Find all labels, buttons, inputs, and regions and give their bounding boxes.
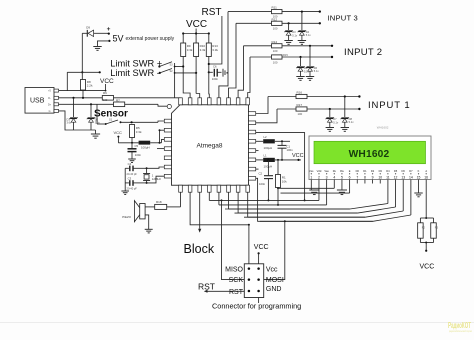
- svg-text:D1: D1: [363, 169, 367, 173]
- svg-text:100µH: 100µH: [264, 165, 273, 169]
- svg-text:13: 13: [401, 176, 405, 180]
- svg-text:16: 16: [424, 176, 428, 180]
- svg-text:Vss: Vss: [309, 169, 314, 173]
- svg-text:100n: 100n: [135, 153, 142, 157]
- svg-text:R12: R12: [272, 17, 278, 21]
- svg-text:8: 8: [364, 176, 366, 180]
- svg-text:20-40 pF: 20-40 pF: [127, 172, 138, 176]
- svg-text:3.3k: 3.3k: [136, 130, 142, 134]
- svg-text:D3: D3: [379, 169, 383, 173]
- svg-text:VCC: VCC: [186, 19, 207, 30]
- svg-text:S1: S1: [109, 117, 113, 121]
- svg-text:C3: C3: [128, 177, 132, 181]
- svg-text:5.1v: 5.1v: [333, 120, 339, 124]
- svg-text:SCK: SCK: [229, 277, 244, 284]
- svg-text:D7: D7: [409, 169, 413, 173]
- svg-text:R18: R18: [156, 200, 162, 204]
- svg-text:VCC: VCC: [114, 130, 123, 135]
- svg-text:20-40 pF: 20-40 pF: [127, 187, 138, 191]
- svg-text:C2: C2: [259, 172, 263, 176]
- svg-text:12MHz: 12MHz: [152, 177, 162, 181]
- svg-text:R11: R11: [272, 6, 278, 10]
- svg-text:Connector for programming: Connector for programming: [212, 302, 301, 311]
- svg-text:VCC: VCC: [420, 264, 435, 271]
- svg-text:C5: C5: [135, 144, 139, 148]
- svg-text:3: 3: [326, 176, 328, 180]
- svg-text:6: 6: [349, 176, 351, 180]
- svg-text:WH1602: WH1602: [349, 149, 390, 160]
- svg-text:INPUT 3: INPUT 3: [328, 14, 358, 23]
- svg-text:Vdd: Vdd: [317, 169, 322, 173]
- svg-text:L2: L2: [264, 135, 268, 139]
- svg-text:VCC: VCC: [100, 78, 114, 85]
- svg-text:Limit SWR -: Limit SWR -: [110, 68, 160, 78]
- svg-text:10: 10: [378, 176, 382, 180]
- svg-text:INPUT 2: INPUT 2: [344, 47, 382, 58]
- svg-text:радиолюбительский портал: радиолюбительский портал: [449, 329, 472, 333]
- svg-text:9: 9: [372, 176, 374, 180]
- svg-text:100: 100: [273, 60, 278, 64]
- svg-text:C4: C4: [128, 162, 132, 166]
- svg-text:2: 2: [318, 176, 320, 180]
- svg-text:5: 5: [341, 176, 343, 180]
- svg-text:Vcc: Vcc: [266, 266, 278, 273]
- svg-text:Block: Block: [184, 242, 215, 256]
- svg-text:2.2k: 2.2k: [87, 84, 93, 88]
- svg-text:100n: 100n: [212, 77, 219, 81]
- svg-text:100: 100: [298, 112, 303, 116]
- svg-text:14: 14: [409, 176, 413, 180]
- svg-text:GND: GND: [266, 286, 282, 293]
- svg-text:4: 4: [333, 176, 335, 180]
- svg-text:5.1v: 5.1v: [306, 33, 312, 37]
- svg-text:USB: USB: [30, 98, 45, 105]
- svg-text:5V: 5V: [113, 33, 124, 43]
- svg-text:PIEZO: PIEZO: [122, 215, 131, 219]
- svg-text:MISO: MISO: [225, 266, 243, 273]
- svg-text:VCC: VCC: [254, 244, 269, 251]
- svg-text:Limit SWR +: Limit SWR +: [110, 58, 162, 68]
- svg-text:+: +: [107, 26, 111, 33]
- svg-text:E: E: [349, 169, 351, 173]
- svg-text:12: 12: [394, 176, 398, 180]
- svg-text:D-: D-: [48, 97, 51, 100]
- svg-text:РадиоКОТ: РадиоКОТ: [448, 320, 471, 330]
- svg-text:D4: D4: [386, 169, 390, 173]
- svg-text:R7: R7: [116, 99, 120, 103]
- svg-text:R15: R15: [283, 53, 288, 57]
- svg-text:G: G: [49, 110, 51, 113]
- svg-text:100: 100: [103, 98, 108, 102]
- svg-text:5.1v: 5.1v: [349, 120, 355, 124]
- svg-text:5.1v: 5.1v: [292, 33, 298, 37]
- svg-text:MOSI: MOSI: [266, 277, 284, 284]
- svg-text:7: 7: [356, 176, 358, 180]
- svg-text:3.3k: 3.3k: [200, 48, 206, 52]
- svg-text:R6: R6: [103, 91, 107, 95]
- svg-text:R17: R17: [297, 103, 303, 107]
- svg-text:RST: RST: [198, 282, 215, 292]
- svg-text:Atmega8: Atmega8: [197, 142, 223, 149]
- svg-text:100µH: 100µH: [141, 146, 150, 150]
- svg-text:3.3k: 3.3k: [187, 48, 193, 52]
- svg-text:11: 11: [386, 176, 390, 180]
- svg-text:WH1602: WH1602: [377, 125, 389, 129]
- svg-text:3.6v: 3.6v: [67, 121, 73, 125]
- svg-text:5.1v: 5.1v: [314, 69, 320, 73]
- svg-text:K: K: [418, 169, 420, 173]
- svg-text:100µH: 100µH: [264, 146, 273, 150]
- svg-text:L1: L1: [264, 154, 268, 158]
- svg-text:A: A: [425, 169, 427, 173]
- svg-text:VCC: VCC: [292, 153, 304, 159]
- svg-text:Vee: Vee: [324, 169, 329, 173]
- svg-text:R14: R14: [272, 40, 278, 44]
- svg-text:INPUT 1: INPUT 1: [368, 100, 411, 111]
- svg-text:10k: 10k: [282, 179, 287, 183]
- svg-text:D6: D6: [402, 169, 406, 173]
- svg-text:R16: R16: [297, 90, 303, 94]
- svg-text:3.3k: 3.3k: [212, 48, 218, 52]
- svg-text:D9: D9: [86, 25, 90, 29]
- svg-text:RST: RST: [229, 289, 244, 296]
- svg-text:100n: 100n: [259, 182, 266, 186]
- svg-text:1: 1: [310, 176, 312, 180]
- svg-text:C6: C6: [213, 64, 217, 68]
- svg-text:D2: D2: [371, 169, 375, 173]
- svg-text:RST: RST: [202, 7, 222, 18]
- svg-text:Rw: Rw: [340, 169, 344, 173]
- svg-text:external power supply: external power supply: [126, 36, 175, 42]
- svg-text:D5: D5: [394, 169, 398, 173]
- svg-text:100: 100: [273, 49, 278, 53]
- svg-text:D0: D0: [356, 169, 360, 173]
- svg-text:100: 100: [273, 26, 278, 30]
- svg-text:100n: 100n: [287, 148, 294, 152]
- svg-text:15: 15: [417, 176, 421, 180]
